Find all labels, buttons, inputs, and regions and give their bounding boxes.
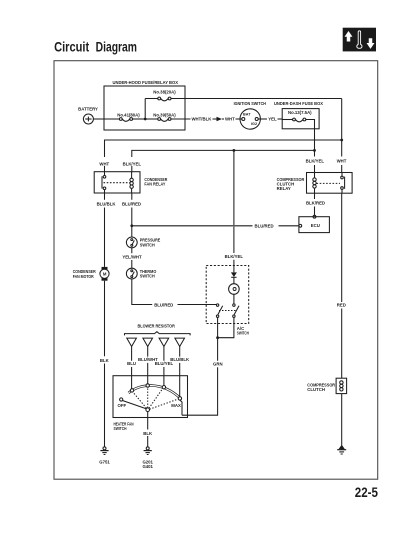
junction BLK/YEL at under-dash drop	[313, 149, 316, 152]
svg-text:UNDER-DASH FUSE BOX: UNDER-DASH FUSE BOX	[274, 101, 323, 106]
svg-text:BLK: BLK	[143, 431, 153, 436]
resistor 4 (blower)	[175, 338, 185, 346]
ECU terminal left	[299, 224, 302, 227]
svg-text:RED: RED	[337, 303, 346, 308]
resistor 2 (blower)	[143, 338, 153, 346]
svg-text:FAN MOTOR: FAN MOTOR	[73, 274, 95, 279]
wire YEL/WHT pressure to thermo	[131, 248, 133, 268]
wiper arm to OFF	[123, 401, 147, 409]
wire GRN down to heater fan switch	[182, 338, 218, 416]
diode	[231, 272, 237, 277]
under-hood fuse/relay box	[104, 86, 185, 130]
heater fan switch rotary arc	[129, 386, 181, 399]
wire fuse38 to right drop	[171, 98, 342, 100]
svg-text:Diagram: Diagram	[96, 39, 137, 55]
fuse No.13 (7.5A)	[288, 110, 312, 122]
wire BLU/RED to ECU	[132, 225, 299, 227]
svg-text:WHT/BLK: WHT/BLK	[192, 117, 213, 122]
svg-text:IG2: IG2	[251, 122, 257, 126]
svg-text:BLU/BLK: BLU/BLK	[170, 357, 190, 362]
svg-text:No.13(7.5A): No.13(7.5A)	[288, 110, 312, 115]
compressor clutch	[307, 378, 346, 393]
page frame	[54, 61, 378, 480]
icon down arrow	[367, 39, 374, 49]
svg-text:BLU/RED: BLU/RED	[255, 224, 274, 229]
wire MAX node to GRN	[180, 400, 182, 415]
svg-text:G401: G401	[142, 464, 153, 469]
wire BLU/BLK resistor4 to switch	[179, 347, 181, 398]
svg-text:22-5: 22-5	[355, 485, 378, 501]
svg-text:CLUTCH: CLUTCH	[307, 387, 325, 392]
ignition switch	[234, 101, 266, 129]
fuse No.39 (50A)	[153, 113, 176, 122]
ground compressor clutch (chassis)	[337, 445, 346, 454]
svg-text:SWITCH: SWITCH	[140, 274, 155, 279]
wire BLU/RED junction to pressure switch	[131, 226, 133, 237]
wire branch to fuse38	[145, 98, 158, 100]
ECU box	[299, 217, 330, 233]
wire into fuse13	[282, 119, 292, 121]
wire battery to under-hood box	[93, 118, 104, 120]
svg-text:G751: G751	[99, 460, 110, 465]
svg-text:UNDER-HOOD FUSE/RELAY BOX: UNDER-HOOD FUSE/RELAY BOX	[113, 80, 179, 85]
svg-text:BLK/RED: BLK/RED	[306, 201, 325, 206]
icon up arrow	[345, 32, 352, 42]
svg-text:BLK/YEL: BLK/YEL	[225, 254, 244, 259]
svg-text:No.38(20A): No.38(20A)	[153, 90, 176, 95]
svg-text:IGNITION SWITCH: IGNITION SWITCH	[234, 101, 266, 106]
junction BLU/RED	[130, 224, 133, 227]
wire junction up to fuse38 branch	[144, 99, 146, 120]
wire ignition to YEL label	[258, 118, 267, 120]
wire BLU/RED relay to junction	[131, 193, 133, 226]
terminal 2	[146, 384, 149, 387]
wire heater switch pivot to ground	[147, 412, 149, 447]
wire thermo switch down and right to A/C switch	[132, 279, 217, 305]
battery	[78, 107, 98, 125]
under-dash fuse box	[282, 109, 319, 129]
node WHT label	[222, 118, 224, 120]
icon thermometer	[357, 31, 362, 49]
svg-text:BATTERY: BATTERY	[78, 107, 98, 112]
svg-text:BAT: BAT	[243, 113, 251, 117]
svg-text:BLOWER RESISTOR: BLOWER RESISTOR	[138, 323, 176, 328]
fuse No.38 (20A)	[153, 90, 176, 101]
svg-text:BLU/RED: BLU/RED	[154, 302, 173, 307]
heating/cooling icon black box	[343, 28, 376, 52]
pressure switch	[126, 237, 160, 248]
resistor 1 (blower)	[127, 338, 137, 346]
wire fuse39 to box edge	[171, 118, 191, 120]
wire BLK/YEL center drop to A/C switch	[233, 150, 235, 272]
wire fuse41 to junction	[133, 118, 146, 120]
terminal 3	[162, 386, 165, 389]
wire diode to bulb	[233, 277, 235, 283]
wire main feed inside box	[104, 118, 119, 120]
svg-text:YEL: YEL	[268, 117, 277, 122]
junction WHT at right drop	[340, 139, 343, 142]
svg-text:FAN RELAY: FAN RELAY	[144, 182, 165, 187]
svg-text:OFF: OFF	[118, 403, 127, 408]
svg-text:No.41(80A): No.41(80A)	[117, 113, 140, 118]
svg-text:M: M	[103, 272, 107, 277]
svg-text:Circuit: Circuit	[54, 39, 89, 55]
svg-text:ECU: ECU	[311, 223, 320, 228]
terminal OFF	[120, 398, 123, 401]
heater fan switch box	[113, 376, 188, 418]
svg-text:BLU/RED: BLU/RED	[122, 202, 141, 207]
wire BLK/RED relay to ECU	[314, 193, 316, 215]
wire short segment	[213, 118, 217, 120]
wire BLK/YEL distribution line	[132, 150, 315, 172]
dashed wiper positions	[133, 392, 147, 408]
wire main to fuse39	[145, 118, 158, 120]
svg-text:YEL/WHT: YEL/WHT	[122, 254, 142, 259]
resistor 3 (blower)	[159, 338, 169, 346]
svg-text:WHT: WHT	[225, 117, 235, 122]
wire A/C switch poles join	[218, 317, 234, 337]
svg-text:BLK/YEL: BLK/YEL	[306, 159, 325, 164]
svg-text:WHT: WHT	[337, 159, 347, 164]
svg-text:BLU/BLK: BLU/BLK	[97, 202, 117, 207]
A/C switch contacts	[216, 304, 239, 318]
indicator bulb	[229, 284, 240, 295]
wire BLK motor to ground	[104, 281, 106, 447]
svg-text:RELAY: RELAY	[277, 186, 291, 191]
wire BLU/WHT resistor2 to switch	[147, 347, 149, 385]
svg-text:SWITCH: SWITCH	[237, 331, 249, 336]
wire bulb to switch contact	[233, 294, 235, 304]
wire color-change arrow	[217, 117, 223, 122]
condenser fan relay	[94, 172, 168, 193]
compressor clutch relay	[277, 173, 353, 194]
wire to ignition switch	[236, 118, 242, 120]
svg-text:BLK/YEL: BLK/YEL	[123, 161, 142, 166]
wire WHT distribution line	[105, 140, 342, 172]
wire BLU/BLK relay to motor	[104, 193, 106, 267]
wire fuse13 to corner down	[306, 120, 315, 151]
wire YEL to under-dash box	[278, 118, 283, 120]
terminal MAX	[178, 397, 181, 400]
ground G201/G401	[142, 447, 153, 469]
svg-text:SWITCH: SWITCH	[140, 242, 155, 247]
junction main feed	[144, 118, 147, 121]
svg-text:BLK: BLK	[100, 358, 110, 363]
terminal 1	[130, 389, 133, 392]
ground G751	[99, 447, 110, 465]
junction below A/C switch	[216, 336, 219, 339]
wiper pivot	[146, 408, 150, 412]
wire BLU/YEL resistor3 to switch	[163, 347, 165, 386]
wire BLK/YEL drop to compressor relay coil	[314, 150, 316, 172]
condenser fan motor	[73, 267, 109, 281]
wire BLU resistor1 to switch	[131, 347, 133, 390]
wire compressor clutch feed	[341, 193, 343, 378]
svg-text:GRN: GRN	[213, 362, 223, 367]
junction BLK/YEL at center drop	[233, 149, 236, 152]
ECU terminal top	[313, 215, 316, 218]
wire right WHT drop from fuse38	[341, 99, 343, 173]
svg-text:BLU: BLU	[127, 361, 136, 366]
wire clutch to ground	[341, 394, 343, 446]
svg-text:MAX: MAX	[171, 403, 181, 408]
svg-text:SWITCH: SWITCH	[114, 426, 127, 431]
blower resistor bracket	[125, 332, 191, 336]
A/C switch dashed box	[206, 266, 249, 324]
fuse No.41 (80A)	[117, 113, 140, 122]
thermo switch	[126, 268, 156, 279]
svg-text:No.39(50A): No.39(50A)	[153, 113, 176, 118]
svg-text:WHT: WHT	[99, 161, 109, 166]
